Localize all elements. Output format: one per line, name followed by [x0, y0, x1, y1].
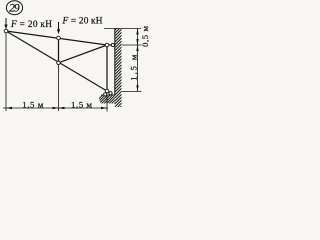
svg-text:F = 20 кН: F = 20 кН — [10, 20, 52, 30]
svg-text:1,5 м: 1,5 м — [22, 99, 43, 109]
svg-text:0,5 м: 0,5 м — [140, 25, 150, 46]
svg-text:29: 29 — [9, 3, 20, 15]
svg-text:1,5 м: 1,5 м — [129, 54, 139, 80]
svg-text:1,5 м: 1,5 м — [71, 99, 92, 109]
svg-text:F = 20 кН: F = 20 кН — [62, 17, 103, 27]
